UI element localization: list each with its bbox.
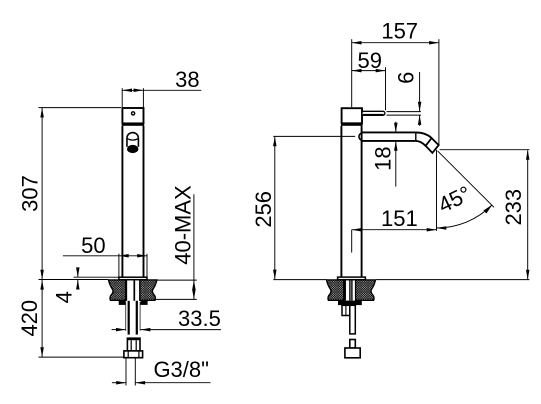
angle 45 ray vertical [436,150,438,231]
dim 18 line + arrows [395,122,397,133]
mounting washer (side) [338,301,362,306]
spout bend outer [416,132,432,138]
svg-text:G3/8": G3/8" [153,357,209,382]
counter witness right (side view) [376,279,530,281]
spout left end arc [359,133,362,141]
svg-text:233: 233 [501,189,526,226]
dim 33.5 line + arrows [112,329,126,331]
svg-text:18: 18 [370,146,395,170]
dim 420 line [41,280,43,357]
spout bottom line [362,140,416,142]
dim G3/8 line + arrows [112,382,126,384]
hose lines (front) [125,302,127,331]
svg-text:307: 307 [17,175,42,212]
counter level witness (shared 307/420/4) [39,279,109,281]
spout end block [426,138,439,153]
body right edge (front) [143,126,145,278]
svg-text:6: 6 [394,72,419,84]
dim 151 line [352,229,437,231]
dim 50 witness lines [118,254,120,277]
dim 50 line [63,255,147,257]
countertop hatch left (side) [327,280,344,300]
body left edge (side) [340,126,342,278]
spout top line [362,131,416,133]
faucet cap (side) [342,108,362,123]
hose stub (side) [342,305,350,315]
dim 6 witness lines [387,111,421,113]
handle mid arc [127,138,138,140]
countertop hatch right (front) [140,280,157,300]
angle 45 arc [437,205,493,228]
dim 59 right witness [385,67,387,110]
dim 151 centerline below [351,230,353,253]
valve tube lines in counter hole (front) [125,280,127,301]
mounting washer right (front) [141,301,148,305]
angle 45 arc arrows [437,226,447,230]
svg-text:38: 38 [175,67,199,92]
handle lever (side) [362,111,385,115]
threaded stud lines (front) [128,301,130,335]
svg-text:256: 256 [251,191,276,228]
nut stem (side) [350,340,356,349]
dim 6 line + arrows [419,72,421,112]
angle 45 ray diagonal [438,151,494,207]
cap bottom band (side) [341,123,363,126]
dim 38 witness lines [121,88,123,107]
dim 4 line segments [77,269,79,277]
dim 40-MAX line [193,194,195,299]
body right edge (side) [361,126,363,278]
dim 40-MAX witnesses [156,279,197,281]
hose nut lower (front) [124,351,143,358]
dim 38 arrows [122,89,132,93]
dim 4 top witness [74,276,120,278]
countertop hatch left (front) [109,280,126,300]
base plate (front) [119,277,147,280]
spout bend inner [416,141,426,146]
counter witness left (side view) [273,279,326,281]
dim 307 line [41,108,43,279]
countertop hatch right (side) [356,280,376,300]
dim 233 line [527,150,529,279]
svg-text:157: 157 [381,18,418,43]
svg-text:33.5: 33.5 [178,306,221,331]
svg-text:59: 59 [357,48,381,73]
handle end ellipse [127,145,138,153]
body left edge (front) [121,126,123,278]
dim 233 top witness [440,149,530,151]
hose nut upper (front) [127,338,140,351]
nut base (side) [345,348,360,358]
base plate (side) [338,277,366,280]
dim 157 right witness [438,39,440,145]
valve thread lines (side) [344,280,346,301]
dim 256 line [274,137,276,280]
dim G3/8 witness lines [125,358,127,385]
svg-text:420: 420 [17,300,42,337]
dim 420 bottom witness [39,356,124,358]
handle cylinder top arc [127,133,138,138]
spout joint line [415,133,417,141]
dim 157 left witness (body centerline above cap) [351,39,353,107]
svg-text:4: 4 [52,291,77,303]
threaded rod (side) [350,305,356,334]
dim 307 top witness [39,107,122,109]
cap bottom band (front) [122,123,144,126]
faucet cap (front) [122,108,143,123]
dim 256 top witness (spout axis) [273,135,355,137]
svg-text:40-MAX: 40-MAX [171,185,196,265]
svg-text:50: 50 [81,233,105,258]
mounting washer left (front) [119,301,126,305]
dim 38 line [122,89,201,91]
cap dot [132,112,135,115]
dim 59 line [352,70,386,72]
dim 157 line [352,42,439,44]
handle cylinder sides [126,138,128,147]
svg-text:151: 151 [381,206,418,231]
